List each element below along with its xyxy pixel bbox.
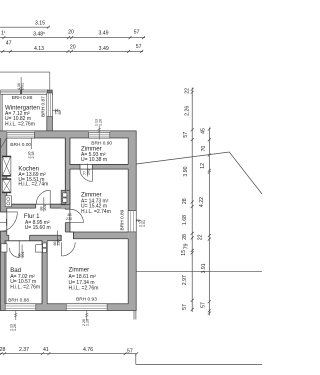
svg-text:2.97: 2.97 (182, 275, 188, 285)
svg-text:H.i.L. =2.74m: H.i.L. =2.74m (18, 182, 48, 188)
svg-text:BRH 0.87: BRH 0.87 (41, 96, 47, 117)
svg-text:BRH 0.88: BRH 0.88 (8, 297, 29, 303)
svg-text:47: 47 (6, 41, 12, 47)
svg-text:28: 28 (0, 347, 5, 353)
svg-text:57: 57 (136, 44, 142, 50)
svg-text:H.i.L. =2.76m: H.i.L. =2.76m (5, 121, 35, 127)
svg-text:1.68: 1.68 (182, 215, 188, 225)
svg-text:H.i.L. =2.76m: H.i.L. =2.76m (69, 286, 99, 292)
svg-text:U= 15.60 m: U= 15.60 m (25, 225, 51, 231)
svg-text:57: 57 (134, 30, 140, 36)
svg-text:230: 230 (66, 217, 72, 221)
svg-text:57: 57 (200, 302, 206, 308)
svg-text:79: 79 (184, 243, 190, 249)
svg-text:201: 201 (21, 252, 25, 258)
svg-text:1.01: 1.01 (142, 220, 146, 227)
svg-text:57: 57 (127, 348, 133, 354)
svg-text:U= 10.38 m: U= 10.38 m (81, 157, 107, 163)
svg-text:22: 22 (185, 88, 191, 94)
svg-text:Flur 1: Flur 1 (24, 213, 40, 220)
svg-text:70: 70 (201, 146, 207, 152)
svg-text:BRH 0.93: BRH 0.93 (76, 297, 97, 303)
svg-text:20: 20 (70, 44, 76, 50)
svg-text:41: 41 (43, 347, 49, 353)
svg-text:2.01: 2.01 (21, 83, 25, 90)
svg-text:20: 20 (68, 30, 74, 36)
svg-text:1.26: 1.26 (98, 119, 102, 126)
svg-text:45: 45 (201, 128, 207, 134)
svg-text:4.22: 4.22 (199, 197, 205, 207)
svg-text:88: 88 (58, 111, 62, 115)
svg-text:57: 57 (183, 132, 189, 138)
svg-text:H.i.L. =2.76m: H.i.L. =2.76m (10, 284, 40, 290)
svg-text:3.15: 3.15 (35, 21, 45, 27)
svg-text:H.i.L. =2.74m: H.i.L. =2.74m (81, 209, 111, 215)
svg-text:28: 28 (182, 234, 188, 240)
svg-text:1.26: 1.26 (86, 319, 90, 326)
svg-text:12: 12 (200, 163, 206, 169)
svg-text:201: 201 (86, 169, 90, 175)
svg-text:BRH 0.00: BRH 0.00 (10, 142, 31, 148)
svg-text:2.37: 2.37 (19, 347, 29, 353)
svg-text:22: 22 (197, 234, 203, 240)
svg-text:57: 57 (182, 304, 188, 310)
svg-text:28: 28 (182, 198, 188, 204)
svg-text:2.26: 2.26 (185, 106, 191, 116)
svg-text:BRH 0.90: BRH 0.90 (91, 140, 112, 146)
svg-text:3.49: 3.49 (98, 31, 108, 37)
svg-text:15: 15 (181, 250, 187, 256)
svg-text:Zimmer: Zimmer (81, 191, 102, 198)
svg-text:Zimmer: Zimmer (69, 266, 90, 273)
svg-text:1.26: 1.26 (13, 324, 17, 331)
svg-text:3.90: 3.90 (183, 166, 189, 176)
svg-text:3.49: 3.49 (99, 46, 109, 52)
svg-text:230: 230 (56, 240, 60, 246)
svg-text:4.76: 4.76 (83, 347, 93, 353)
svg-text:2.38: 2.38 (31, 152, 35, 159)
svg-text:Bad: Bad (10, 267, 21, 274)
svg-text:BRH 0.88: BRH 0.88 (12, 95, 33, 101)
svg-text:BRH 0.89: BRH 0.89 (119, 209, 125, 230)
svg-text:201: 201 (43, 205, 47, 211)
svg-text:4.13: 4.13 (34, 46, 44, 52)
